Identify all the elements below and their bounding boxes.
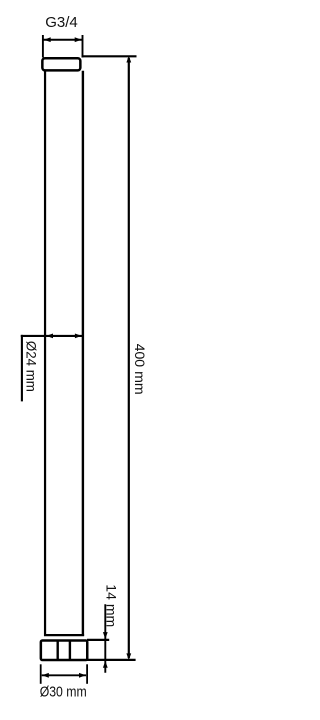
dimension G3/4 line	[44, 39, 83, 41]
extension line nut bottom (14 mm / 400 mm)	[87, 659, 136, 661]
dimension Ø30 arrow left	[42, 673, 49, 678]
dimension G3/4 arrow right	[75, 37, 82, 42]
nut facet line left	[57, 640, 59, 660]
dimension 14 mm arrow up	[103, 661, 108, 668]
pipe wall right	[82, 71, 84, 636]
dimension G3/4 extension tick right	[82, 35, 84, 58]
dimension 400 mm arrow top	[126, 56, 131, 63]
dimension Ø24 arrow left	[46, 334, 53, 339]
dimension Ø24 arrow right	[75, 334, 82, 339]
dimension G3/4 arrow left	[44, 37, 51, 42]
extension line top (to 400 mm dimension)	[82, 55, 137, 57]
pipe bottom cap	[44, 634, 84, 636]
dimension Ø24 line	[21, 335, 84, 337]
dimension 14 mm line	[104, 604, 106, 673]
dimension Ø30 line	[42, 674, 86, 676]
extension line nut left (Ø30)	[40, 664, 42, 684]
nut body	[41, 641, 87, 661]
dimension 14 mm arrow down	[103, 632, 108, 639]
top connector fitting	[42, 58, 80, 70]
svg-text:Ø30 mm: Ø30 mm	[40, 683, 87, 700]
dimension Ø24 leader line	[21, 335, 23, 402]
dimension 400 mm arrow bottom	[126, 653, 131, 660]
svg-text:400 mm: 400 mm	[132, 344, 148, 395]
pipe wall left	[44, 71, 46, 636]
dimension G3/4 extension tick left	[42, 35, 44, 58]
extension line nut right (Ø30)	[86, 664, 88, 684]
svg-text:Ø24 mm: Ø24 mm	[23, 341, 39, 392]
dimension Ø30 arrow right	[79, 673, 86, 678]
extension line nut top (14 mm)	[87, 639, 109, 641]
nut facet line right	[69, 640, 71, 660]
svg-text:G3/4: G3/4	[45, 14, 78, 31]
dimension 400 mm line	[128, 58, 130, 658]
svg-text:14 mm: 14 mm	[103, 584, 119, 627]
